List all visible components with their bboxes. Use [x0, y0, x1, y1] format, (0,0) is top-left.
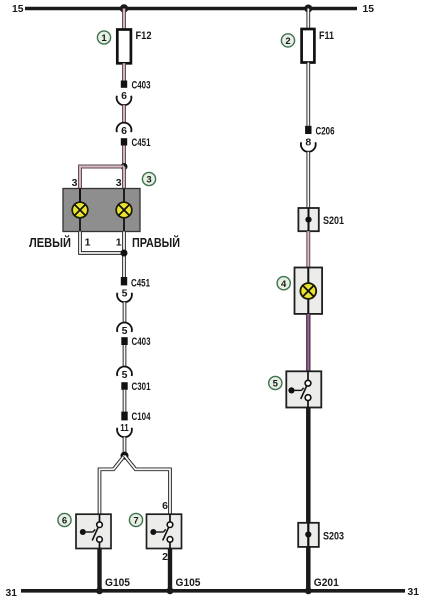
wire (black) S203 to ground G201: [306, 547, 311, 591]
connector C206 block: [305, 126, 311, 134]
splice S203 box: [298, 523, 319, 547]
svg-text:F11: F11: [319, 30, 334, 42]
svg-text:C403: C403: [132, 80, 151, 92]
wire (white) C104 to split junction: [123, 437, 127, 455]
svg-text:6: 6: [121, 125, 127, 137]
connector C451 half (arc, pin 5): [117, 293, 132, 302]
junction below lamps: [121, 250, 128, 257]
connector C403 half (arc, pin 5): [117, 323, 132, 332]
wire (white) C451 to C403: [123, 302, 127, 322]
switch 6 actuator: [80, 529, 95, 535]
splice S201 internal wire and node: [305, 208, 311, 231]
lamp right (ПРАВЫЙ): [116, 202, 132, 218]
wire (white) C301 to C104: [123, 390, 127, 412]
switch 7 lever: [163, 527, 169, 540]
connector C403 block: [121, 81, 127, 88]
wire (pink) branch to left lamp pin 3: [80, 167, 124, 189]
connector C104 half (arc, pin 11): [117, 428, 132, 437]
lamp left (ЛЕВЫЙ): [72, 202, 88, 218]
svg-text:S201: S201: [323, 215, 344, 227]
callout 2: [281, 34, 294, 47]
svg-text:7: 7: [133, 516, 138, 527]
callout 3: [142, 172, 155, 185]
svg-text:C206: C206: [316, 125, 335, 137]
switch 6 lever: [92, 527, 98, 540]
wire (white) fuse F11 to connector C206: [306, 63, 310, 126]
svg-text:C301: C301: [132, 381, 151, 393]
svg-text:C403: C403: [132, 336, 151, 348]
switch 7 contact bottom: [167, 537, 173, 549]
bus 15: [25, 7, 357, 10]
switch 5 contact top: [305, 371, 311, 386]
wire (pink) C451 to lamp feed junction: [122, 146, 126, 167]
internal lead left lamp: [79, 189, 81, 232]
wire (pink) to right lamp pin 3: [122, 167, 126, 189]
svg-text:3: 3: [72, 177, 78, 189]
wire (pink) S201 to lamp 4: [306, 231, 310, 267]
callout 5: [269, 376, 282, 389]
connector C451 block (lower): [121, 277, 127, 285]
svg-text:6: 6: [162, 500, 168, 512]
svg-text:G105: G105: [105, 577, 130, 589]
switch 7 actuator: [150, 529, 165, 535]
junction of F12 feed on bus 15: [120, 4, 128, 12]
internal lead right lamp: [123, 189, 125, 232]
switch box 5: [286, 371, 321, 407]
switch box 6: [76, 514, 111, 548]
svg-text:C104: C104: [132, 411, 152, 423]
fuse F12: [117, 30, 131, 64]
lamp box (component 4): [295, 268, 323, 314]
junction G105 left on bus 31: [96, 587, 103, 594]
junction node lamp feed: [121, 163, 128, 170]
connector C104 block: [121, 412, 127, 421]
switch 6 contact top: [97, 514, 103, 527]
switch 5 contact bottom: [305, 395, 311, 408]
callout 7: [129, 513, 142, 526]
wire (pink) C403 to C451: [122, 105, 126, 123]
connector C301 half (arc, pin 5): [117, 367, 132, 376]
wire (white) split to switch 6: [100, 456, 125, 515]
lamp unit box (component 3): [63, 189, 140, 232]
bus 31: [21, 589, 405, 593]
svg-text:3: 3: [146, 175, 151, 186]
wire (white) C206 to splice S201: [306, 152, 310, 208]
svg-text:31: 31: [408, 586, 420, 598]
callout 4: [277, 277, 290, 290]
svg-text:1: 1: [101, 33, 107, 44]
svg-text:F12: F12: [136, 30, 152, 42]
switch 6 contact bottom: [97, 537, 103, 549]
svg-text:S203: S203: [323, 531, 344, 543]
wire (white) right lamp pin 1 down to C451: [122, 232, 126, 278]
svg-text:5: 5: [273, 379, 279, 390]
fuse F11: [302, 29, 315, 63]
svg-text:5: 5: [122, 287, 128, 299]
callout 6: [58, 513, 71, 526]
svg-text:15: 15: [12, 3, 24, 15]
connector C403 block (lower): [121, 337, 127, 345]
switch 5 lever: [301, 386, 307, 399]
svg-text:5: 5: [122, 325, 128, 337]
svg-text:2: 2: [162, 551, 168, 563]
junction of F11 feed on bus 15: [304, 5, 312, 13]
svg-text:ПРАВЫЙ: ПРАВЫЙ: [132, 235, 180, 250]
switch 5 actuator: [288, 387, 303, 393]
switch 7 contact top: [167, 514, 173, 527]
wire (white) left lamp pin 1 to junction: [80, 232, 124, 254]
wire (black) switch 5 to splice S203: [306, 408, 311, 523]
svg-text:G105: G105: [176, 577, 201, 589]
wire (black) switch 6 to ground G105: [97, 549, 101, 591]
connector C451 block: [121, 138, 127, 145]
svg-text:C451: C451: [132, 137, 151, 149]
wire (white) bus 15 to fuse F11: [306, 9, 310, 30]
wire (pink) bus 15 to fuse F12: [122, 9, 126, 30]
junction G201 on bus 31: [305, 587, 312, 594]
wire (white) C403 to C301: [123, 345, 127, 367]
svg-text:6: 6: [121, 90, 127, 102]
internal lead lamp 4: [307, 268, 309, 314]
connector C451 half (arc, pin 6): [117, 123, 132, 132]
wire (pink) fuse F12 to connector C403: [122, 63, 126, 80]
svg-text:8: 8: [305, 137, 311, 149]
svg-text:G201: G201: [314, 577, 339, 589]
wire (violet) lamp 4 to switch 5: [306, 314, 310, 371]
connector C206 half (arc, pin 8): [301, 142, 316, 151]
wire (black) switch 7 pin 2 to ground G105: [168, 549, 172, 591]
splice S201 box: [298, 208, 318, 231]
connector C301 block: [121, 382, 127, 390]
svg-text:C451: C451: [131, 277, 150, 289]
switch box 7: [147, 514, 182, 548]
svg-text:3: 3: [116, 177, 122, 189]
junction Y split: [121, 452, 129, 460]
svg-text:ЛЕВЫЙ: ЛЕВЫЙ: [29, 235, 71, 250]
junction G105 right on bus 31: [167, 587, 174, 594]
svg-text:5: 5: [122, 369, 128, 381]
lamp 4: [300, 283, 316, 299]
svg-text:1: 1: [116, 236, 122, 248]
splice S203 internal wire and node: [305, 523, 311, 547]
svg-text:31: 31: [6, 587, 18, 599]
svg-text:11: 11: [120, 422, 129, 434]
svg-text:1: 1: [85, 236, 91, 248]
wire (white) split to switch 7 pin 6: [125, 456, 171, 515]
svg-text:4: 4: [281, 279, 287, 290]
connector C403 half (arc, pin 6): [117, 96, 132, 105]
svg-text:2: 2: [285, 36, 290, 47]
callout 1: [97, 31, 110, 44]
svg-text:6: 6: [62, 516, 67, 527]
svg-text:15: 15: [363, 3, 375, 15]
